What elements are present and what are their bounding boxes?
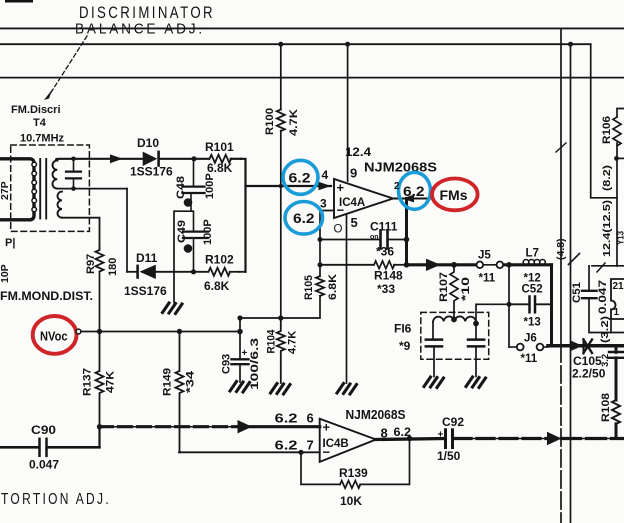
IC4B - input wire: [179, 451, 320, 453]
svg-text:FM.Discri: FM.Discri: [11, 104, 61, 116]
svg-text:DISCRIMINATOR: DISCRIMINATOR: [79, 4, 215, 22]
C51 top row: [592, 265, 624, 267]
IC4B + input bus: [100, 426, 320, 428]
wire: secondary centre-tap: [57, 188, 127, 190]
svg-text:+: +: [323, 420, 331, 435]
IC4B output bus: [376, 439, 444, 440]
svg-text:O: O: [334, 224, 343, 236]
node dot: [473, 321, 479, 327]
wire: secondary bottom lead: [62, 218, 100, 248]
node bubble: [76, 329, 81, 334]
svg-text:*13: *13: [524, 317, 541, 329]
svg-text:FI6: FI6: [394, 322, 412, 336]
wire: IC4A output: [393, 198, 433, 200]
wire: C111 to output column: [389, 239, 407, 241]
transformer T4 dashed box: [11, 145, 90, 231]
wire: R97 down to NVoc node: [99, 272, 101, 332]
svg-text:27P: 27P: [0, 181, 11, 200]
capacitor C48: [183, 161, 205, 211]
svg-text:6.8K: 6.8K: [204, 279, 230, 293]
wire: R102 to corner column: [240, 271, 246, 273]
svg-text:R97: R97: [85, 254, 97, 274]
diode D11: [136, 265, 156, 279]
FI6 cap 2: [468, 324, 484, 377]
capacitor C51: [582, 266, 624, 333]
red circle NVoc: [33, 316, 77, 354]
node dot: [279, 184, 283, 188]
capacitor C90: [0, 427, 100, 456]
svg-text:2.2/50: 2.2/50: [572, 367, 606, 381]
svg-text:R104: R104: [266, 329, 278, 354]
node dot: [451, 317, 457, 323]
svg-text:0.047: 0.047: [597, 280, 609, 314]
svg-text:IC4B: IC4B: [323, 438, 349, 450]
pin9 supply drop: [347, 44, 349, 181]
svg-text:L7: L7: [526, 248, 539, 260]
svg-text:+: +: [337, 180, 345, 195]
right branch x590.7: [591, 44, 617, 198]
svg-text:180: 180: [107, 258, 119, 276]
svg-text:R107: R107: [438, 272, 450, 302]
resistor R102: [209, 268, 231, 276]
svg-text:6.2: 6.2: [289, 170, 311, 186]
long bus vertical x570.5: [570, 44, 572, 523]
FI6 cap 1: [426, 322, 442, 377]
svg-text:6.2: 6.2: [403, 183, 425, 199]
node dot C52 branch: [506, 262, 512, 268]
node dot: [318, 237, 323, 242]
node dot: [191, 269, 196, 274]
svg-text:12.4(12.5): 12.4(12.5): [601, 200, 613, 257]
svg-text:100P: 100P: [204, 173, 216, 199]
svg-text:+: +: [438, 430, 444, 441]
transformer secondary upper winding: [53, 160, 58, 188]
svg-text:10P: 10P: [0, 264, 11, 283]
svg-text:D11: D11: [136, 251, 158, 265]
svg-text:0.047: 0.047: [29, 458, 59, 472]
svg-text:*10: *10: [460, 277, 472, 301]
R106 branch: [617, 109, 624, 118]
svg-text:6.2: 6.2: [275, 411, 298, 425]
thick vertical to C105/R108: [615, 346, 618, 353]
node dot: [614, 156, 619, 161]
svg-text:R105: R105: [303, 275, 315, 300]
FI6 right lead up to C52 row: [476, 304, 509, 323]
wire: pin3 column down: [319, 211, 321, 277]
ground: [466, 377, 486, 388]
ground: [424, 377, 444, 388]
svg-text:*11: *11: [521, 353, 538, 365]
wire: top rail y28 (strike-through line): [0, 27, 624, 29]
svg-text:*36: *36: [376, 245, 394, 259]
feedback R139: [301, 452, 340, 484]
svg-text:TORTION ADJ.: TORTION ADJ.: [1, 491, 111, 508]
blue circle 6.2 (pin3): [285, 202, 323, 235]
resistor R149: [176, 332, 184, 453]
svg-text:*11: *11: [479, 273, 496, 285]
svg-text:R100: R100: [264, 108, 276, 135]
wire: C52/J6 left column: [508, 265, 510, 347]
node dot: [345, 42, 350, 47]
svg-text:FMs: FMs: [440, 188, 468, 203]
resistor R107: [450, 265, 458, 320]
node dot: [177, 329, 182, 334]
capacitor C52: [509, 297, 552, 313]
leader arrow to T4 (dashed): [44, 36, 87, 100]
svg-text:C49: C49: [176, 220, 188, 243]
ground: [271, 384, 291, 395]
node dot: [404, 237, 410, 243]
wire: rail y77.5: [0, 77, 624, 79]
capacitor C105 plates: [609, 351, 623, 353]
svg-text:1SS176: 1SS176: [130, 165, 173, 179]
node dot: [71, 186, 76, 191]
svg-text:3.2: 3.2: [600, 354, 611, 367]
arrow: [547, 432, 562, 446]
svg-text:D10: D10: [137, 136, 159, 150]
long bus vertical x561: [560, 28, 562, 345]
ground: [230, 382, 250, 393]
wire: C111 row: [320, 239, 380, 241]
wire: pin5 drop to ground: [346, 214, 348, 383]
svg-text:1: 1: [614, 307, 620, 318]
svg-text:(3.2): (3.2): [599, 316, 611, 343]
junction blob: [184, 198, 193, 207]
transformer secondary lower winding: [58, 192, 63, 218]
svg-text:*34: *34: [185, 370, 197, 393]
diode D10: [143, 151, 160, 167]
svg-text:J6: J6: [524, 333, 537, 345]
wire: NVoc row: [81, 331, 240, 333]
resistor R148 row: [320, 264, 374, 266]
svg-text:4: 4: [322, 168, 329, 182]
svg-text:R106: R106: [601, 116, 613, 144]
wire: D10 to R101: [160, 158, 209, 160]
node dot C48 tap: [192, 156, 197, 161]
signal arrow: [426, 259, 441, 271]
svg-text:J5: J5: [478, 250, 491, 262]
svg-text:NJM2068S: NJM2068S: [364, 160, 437, 175]
svg-text:6.2: 6.2: [275, 438, 298, 452]
capacitor C93: [232, 318, 249, 382]
resistor R108: [612, 400, 620, 424]
svg-text:on: on: [370, 234, 379, 241]
wire: 6.2 node to IC4A pin4: [246, 185, 332, 187]
svg-text:1SS176: 1SS176: [124, 284, 167, 298]
wire: centre-tap drop to D11: [126, 189, 128, 272]
wire: supply rail y44: [0, 43, 591, 45]
ground: [337, 384, 357, 395]
capacitor in T4 can: [66, 159, 81, 189]
node dot: [278, 315, 283, 320]
svg-text:9: 9: [350, 166, 357, 181]
svg-text:R108: R108: [600, 393, 612, 422]
svg-text:7: 7: [307, 437, 314, 452]
svg-text:10.7MHz: 10.7MHz: [20, 133, 65, 145]
svg-text:NJM2068S: NJM2068S: [346, 407, 406, 422]
node dot: [237, 315, 242, 320]
bus to right: [454, 438, 548, 440]
capacitor C111: [381, 231, 388, 249]
resistor R106: [613, 117, 621, 146]
svg-text:47K: 47K: [105, 371, 117, 393]
ground: [163, 303, 183, 314]
svg-text:6.8K: 6.8K: [207, 161, 233, 175]
svg-text:1/50: 1/50: [437, 449, 461, 463]
arrow on bus: [238, 420, 253, 433]
svg-text:R102: R102: [205, 253, 234, 267]
transformer T4 primary winding: [0, 159, 37, 220]
resistor R137: [96, 332, 104, 427]
svg-text:*9: *9: [399, 339, 411, 353]
svg-text:C52: C52: [522, 284, 543, 296]
arrow on output (pointing left): [402, 195, 414, 203]
svg-text:6.2: 6.2: [293, 210, 315, 226]
wires J6 sides: [509, 346, 517, 348]
resistor R97 (vertical): [96, 248, 104, 272]
arrow into pin 4: [319, 182, 332, 190]
svg-text:R139: R139: [339, 466, 368, 480]
bowtie junction mark: [571, 339, 593, 354]
svg-text:R101: R101: [205, 140, 234, 154]
node dot output/R148: [404, 262, 410, 268]
connector box 21: [611, 279, 624, 333]
wire: R101 out, corner down: [241, 159, 246, 272]
node dot: [407, 436, 413, 442]
svg-text:Y13: Y13: [616, 231, 624, 245]
svg-text:10K: 10K: [340, 494, 362, 508]
svg-text:FM.MOND.DIST.: FM.MOND.DIST.: [0, 291, 93, 303]
node dot: [278, 42, 283, 47]
node dot: [97, 424, 102, 429]
svg-text:T4: T4: [33, 117, 47, 129]
thick wire: L7 down to J6 bus: [550, 265, 553, 346]
node dot R107 tap: [451, 262, 457, 268]
svg-text:*33: *33: [377, 282, 395, 296]
filter FI6 dashed box: [421, 312, 489, 359]
svg-text:C92: C92: [442, 415, 464, 429]
diagonal jog: [569, 254, 580, 265]
svg-text:21: 21: [613, 281, 624, 292]
inductor L7: [523, 260, 545, 266]
capacitor C49: [183, 211, 208, 272]
red circle FMs: [432, 179, 478, 211]
svg-text:C111: C111: [370, 220, 398, 234]
wire: output column down: [405, 199, 408, 265]
wire: R105 bottom to bias rail: [240, 296, 320, 318]
svg-text:+: +: [242, 348, 248, 359]
svg-text:4.7K: 4.7K: [287, 331, 299, 354]
node dot: [568, 42, 573, 47]
svg-text:(4.8): (4.8): [555, 238, 567, 260]
svg-text:R137: R137: [82, 368, 94, 396]
wire: C48/C49 node to ground branch: [174, 211, 193, 302]
svg-text:R149: R149: [162, 368, 174, 396]
node dot: [298, 450, 303, 455]
junction blob: [184, 244, 193, 253]
thick signal wire to filter: [407, 263, 478, 266]
svg-text:IC4A: IC4A: [339, 197, 365, 209]
resistor R105: [316, 276, 324, 296]
resistor R104: [277, 318, 285, 383]
svg-text:R148: R148: [374, 269, 403, 283]
svg-text:BALANCE ADJ.: BALANCE ADJ.: [75, 22, 205, 38]
signal arrow on wire: [110, 154, 123, 163]
node dot: [507, 302, 512, 307]
resistor R101: [210, 155, 232, 163]
svg-text:(8.2): (8.2): [601, 165, 613, 191]
node dot: [97, 329, 102, 334]
jumper J5: [477, 262, 504, 269]
slash mark on bus: [556, 143, 566, 152]
scan smudge top-left: [5, 0, 33, 3]
svg-text:100P: 100P: [202, 219, 214, 245]
resistor R100: [277, 110, 285, 132]
slash on row: [597, 263, 605, 272]
svg-text:6.8K: 6.8K: [327, 274, 339, 300]
svg-text:C51: C51: [571, 282, 583, 303]
svg-text:C48: C48: [175, 176, 187, 199]
jumper J6: [517, 344, 544, 351]
node dot: [71, 157, 76, 162]
wire: R100 down through 6.2 node to R104 node: [280, 131, 282, 318]
op-amp IC4A: [334, 179, 393, 218]
blue circle 6.2 (pin4): [283, 160, 318, 194]
svg-text:NVoc: NVoc: [40, 328, 68, 343]
svg-text:12.4: 12.4: [345, 145, 371, 159]
node dot: [237, 329, 243, 335]
svg-text:2: 2: [394, 181, 400, 192]
transformer core: [39, 159, 41, 219]
svg-text:C90: C90: [31, 423, 56, 437]
svg-text:P|: P|: [5, 237, 15, 249]
node dot: [318, 262, 323, 267]
blue circle 6.2 (output): [399, 172, 431, 209]
wire: pin3: [321, 210, 334, 212]
svg-text:C93: C93: [221, 354, 233, 374]
capacitor C92: [446, 430, 453, 448]
svg-text:6: 6: [307, 410, 314, 425]
wire: D11 row: [127, 271, 136, 273]
wire right from dot: [617, 157, 624, 159]
svg-text:5: 5: [351, 215, 358, 230]
R100 branch: supply to 6.2 node: [280, 44, 282, 109]
thick bus J6 to right edge: [548, 344, 624, 348]
wire: secondary top lead: [56, 159, 142, 160]
op-amp IC4B: [320, 419, 376, 462]
FI6 coil: [433, 316, 476, 323]
svg-text:4.7K: 4.7K: [288, 109, 300, 136]
